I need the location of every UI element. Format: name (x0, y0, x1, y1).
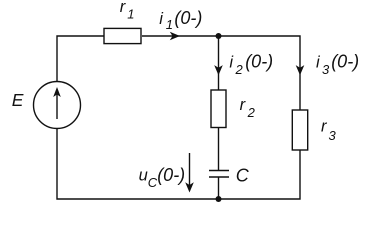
svg-text:(0-): (0-) (331, 52, 359, 72)
svg-text:E: E (12, 90, 24, 110)
svg-text:1: 1 (166, 17, 173, 32)
svg-text:(0-): (0-) (174, 8, 202, 28)
svg-text:(0-): (0-) (157, 165, 185, 185)
svg-text:3: 3 (322, 62, 330, 77)
wire from capacitor to node B (218, 177, 220, 199)
current arrow i1 (170, 32, 180, 41)
voltage arrow uC (189, 153, 191, 186)
wire from R2 to capacitor C (218, 128, 220, 171)
current arrow i2 (214, 65, 223, 75)
svg-text:2: 2 (235, 62, 244, 77)
svg-text:3: 3 (329, 128, 337, 143)
wire top-left from source to resistor R1 (57, 36, 104, 82)
svg-text:C: C (236, 166, 250, 186)
wire from node A to top-right corner and down to R3 (219, 36, 301, 110)
svg-text:2: 2 (247, 105, 256, 120)
resistor R3 (292, 110, 307, 150)
wire from R1 to node A (142, 35, 219, 37)
resistor R2 (211, 90, 226, 128)
current arrow i3 (296, 65, 305, 75)
source E internal arrow (56, 94, 58, 119)
resistor R1 (104, 28, 141, 43)
svg-text:(0-): (0-) (245, 52, 273, 72)
source E (circle) (34, 82, 81, 129)
svg-text:u: u (139, 166, 148, 184)
node B (junction dot bottom) (216, 196, 222, 202)
svg-text:1: 1 (127, 7, 134, 22)
capacitor C (209, 170, 229, 172)
node A (junction dot top) (216, 33, 222, 39)
wire from R3 to bottom-right corner (219, 150, 301, 199)
wire from node A down to resistor R2 (218, 36, 220, 90)
wire bottom from node B to source (57, 129, 219, 200)
